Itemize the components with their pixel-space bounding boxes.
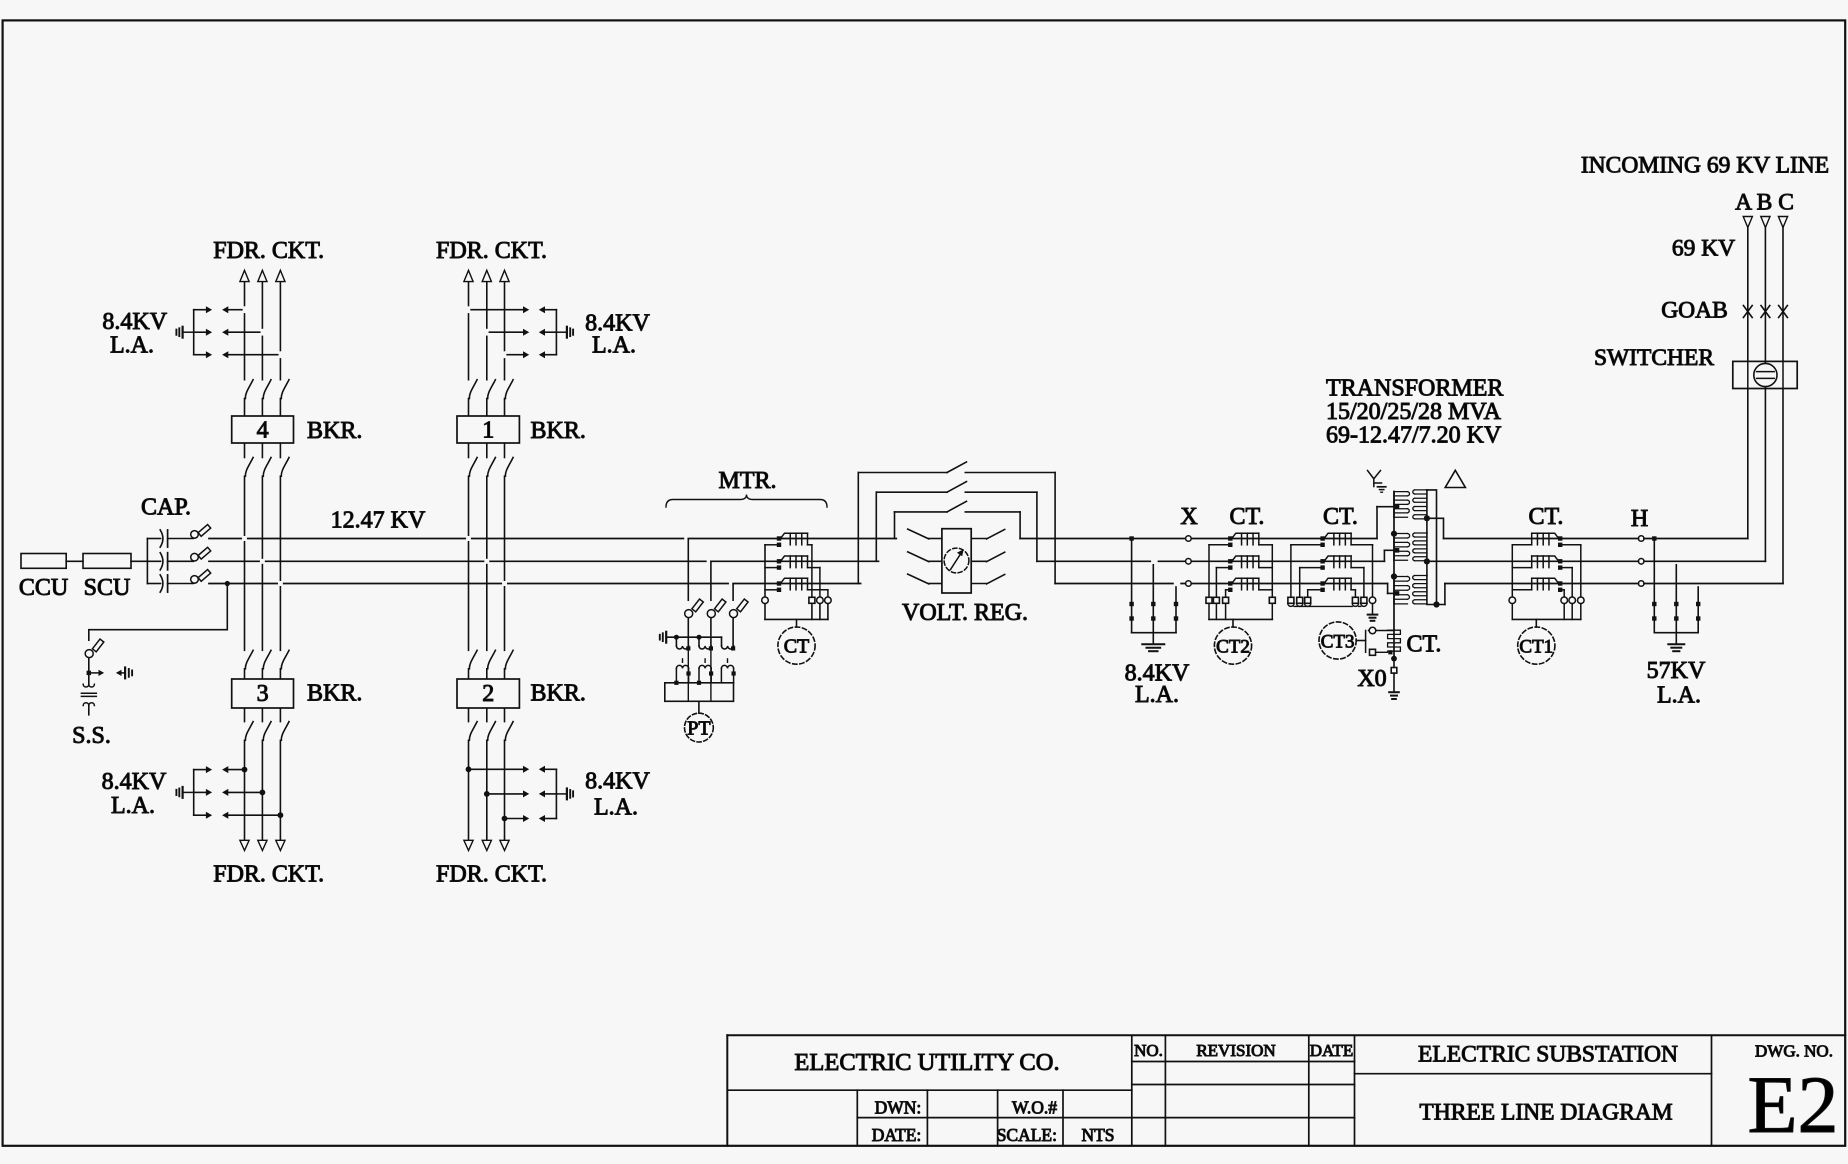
junction dot at bus (1129, 536, 1133, 540)
CT3 lead to neutral CT (1356, 640, 1365, 642)
CT3 right exit phase 1 (1351, 544, 1372, 546)
feeder phase line 2 at x=262.4 (261, 282, 263, 380)
PT secondary winding 3 (721, 665, 733, 668)
regulator series contact right (969, 560, 986, 562)
PT primary winding 2 (698, 637, 700, 646)
svg-text:ELECTRIC SUBSTATION: ELECTRIC SUBSTATION (1418, 1042, 1678, 1068)
svg-text:FDR. CKT.: FDR. CKT. (213, 238, 324, 264)
regulator bypass loop 1 top wire (895, 511, 948, 513)
CT1 winding phase 2 (1558, 559, 1562, 563)
disconnect blade lower top phase 1 (469, 458, 477, 477)
svg-text:3: 3 (257, 681, 269, 707)
disconnect blade upper top phase 3 (281, 380, 289, 399)
H bushing (1638, 559, 1644, 565)
CT winding phase 1 (777, 536, 781, 540)
CT3 right exit phase 3 (1351, 589, 1355, 591)
svg-text:CCU: CCU (19, 575, 68, 601)
CT3 left stub phase 1 (1291, 544, 1323, 546)
notch gap at feeder line 2 (261, 329, 264, 336)
L.A. branch row 3 (194, 354, 207, 356)
57/8.4KV L.A. drop line 2 (1674, 559, 1681, 563)
CT winding phase 2 (777, 559, 781, 563)
arrester ground lead (1675, 633, 1677, 644)
PT tap line phase 3 (732, 585, 734, 601)
X bushing (1186, 536, 1192, 542)
svg-text:S.S.: S.S. (72, 723, 111, 749)
arrester dot lower (1696, 616, 1700, 620)
disconnect blade upper bottom phase 2 (263, 650, 271, 669)
capacitor plate bar phase 3 (167, 575, 169, 592)
capacitor plate curved phase 1 (160, 530, 163, 547)
feeder phase line 3 at x=504.5 (504, 282, 506, 380)
arrester dot upper (1696, 602, 1700, 606)
arrester bracket (1132, 632, 1176, 634)
svg-text:12.47 KV: 12.47 KV (331, 508, 426, 534)
delta lead phase A (1424, 515, 1430, 521)
disconnect blade upper top phase 1 (469, 380, 477, 399)
CT3 left rail phase 1 (1290, 545, 1292, 598)
fuse cutout phase 2 (191, 553, 199, 561)
lightning arrester bracket at x=193.7 (193, 310, 195, 355)
L.A. branch row 2 (194, 331, 207, 333)
junction dot PT w2 (697, 635, 702, 640)
PT secondary winding 2 (699, 665, 711, 668)
incoming line arrowhead C (1778, 217, 1787, 228)
delta closure outer wire (1427, 490, 1437, 605)
svg-text:BKR.: BKR. (531, 681, 586, 707)
CT2 right exit phase 2 (1259, 567, 1273, 569)
H bushing (1638, 536, 1644, 542)
notch gap at feeder line 3 (279, 351, 282, 358)
arrester dot upper (1174, 602, 1178, 606)
disconnect blade upper top phase 1 (245, 380, 253, 399)
title block small cell dividers (856, 1090, 858, 1146)
L.A. branch row 2 (194, 791, 207, 793)
incoming line A (1747, 228, 1749, 362)
PT inner leads (687, 651, 689, 702)
L.A. ground electrode (558, 793, 566, 795)
CT1 left stub phase 2 (1512, 567, 1531, 569)
wire SCU to cap bank (131, 560, 161, 562)
svg-text:15/20/25/28 MVA: 15/20/25/28 MVA (1326, 399, 1502, 425)
svg-text:TRANSFORMER: TRANSFORMER (1326, 376, 1503, 402)
CT circle lead (796, 619, 798, 627)
disconnect blade upper bottom phase 3 (505, 650, 513, 669)
CT2 right exit phase 1 (1259, 544, 1273, 546)
svg-text:L.A.: L.A. (110, 333, 154, 359)
regulator bypass loop 2 left riser (875, 492, 877, 561)
L.A. ground electrode (558, 331, 566, 333)
L.A. branch row 1 (471, 309, 523, 311)
feeder arrow top phase 3 (500, 270, 509, 281)
svg-text:CT.: CT. (1323, 504, 1358, 530)
regulator bypass loop 1 left riser (894, 512, 896, 539)
svg-text:DATE: DATE (1310, 1041, 1353, 1060)
feeder arrow top phase 1 (464, 270, 473, 281)
lightning arrester bracket at x=556.4 (555, 769, 557, 818)
disconnect blade lower bottom phase 3 (505, 722, 513, 741)
arrester dot lower (1174, 616, 1178, 620)
cap bank bracket (146, 539, 148, 584)
S.S. transformer secondary coil (83, 703, 94, 706)
CT1 terminals (1509, 597, 1516, 604)
CT phase exits (808, 544, 812, 546)
svg-text:X: X (1180, 504, 1197, 530)
svg-text:ELECTRIC UTILITY CO.: ELECTRIC UTILITY CO. (794, 1049, 1059, 1076)
notch gap at feeder line 3 (503, 351, 506, 358)
69KV line phase A (1444, 538, 1639, 540)
CT1 winding phase 3 (1558, 581, 1562, 585)
X bushing (1186, 581, 1192, 587)
CT1 left rail (1511, 545, 1513, 598)
arrester ground lead (1152, 633, 1154, 644)
CT1 bottom box (1511, 604, 1513, 620)
svg-text:FDR. CKT.: FDR. CKT. (436, 861, 547, 887)
disconnect blade lower bottom phase 3 (281, 722, 289, 741)
neutral CT terminal bracket (1365, 631, 1367, 653)
CT2 terminals (1206, 597, 1212, 603)
transformer wye winding 3 (1393, 577, 1395, 604)
svg-text:W.O.#: W.O.# (1012, 1098, 1057, 1118)
junction dot S.S. tap on bus C (225, 581, 230, 586)
arrester dot lower (1151, 616, 1155, 620)
CT3 winding phase 2 (1320, 559, 1324, 563)
S.S. fuse cutout (85, 650, 93, 658)
feeder arrow bottom phase 2 (482, 840, 491, 850)
title block company row line (727, 1089, 1132, 1091)
disconnect blade lower top phase 1 (245, 458, 253, 477)
disconnect blade upper top phase 2 (488, 380, 496, 399)
regulator bypass loop 3 left riser (857, 473, 859, 584)
CT3 left rail phase 3 (1307, 590, 1309, 598)
CT2 left stub phase 1 (1209, 544, 1230, 546)
S.S. transformer core (81, 692, 96, 694)
capacitor plate bar phase 2 (167, 553, 169, 570)
wire CCU-SCU (66, 560, 83, 562)
svg-text:SCALE:: SCALE: (997, 1125, 1057, 1145)
disconnect blade lower top phase 3 (505, 458, 513, 477)
disconnect blade lower bottom phase 1 (469, 722, 477, 741)
L.A. branch row 1 (194, 309, 207, 311)
CT1 winding phase 1 (1558, 536, 1562, 540)
CT3 left stub phase 3 (1308, 589, 1323, 591)
junction dot at feeder line 1 (242, 767, 248, 773)
svg-text:CT.: CT. (1407, 632, 1442, 658)
disconnect blade lower top phase 2 (263, 458, 271, 477)
junction dot S.S. arrester tap (87, 671, 91, 675)
lightning arrester bracket at x=193.7 (193, 770, 195, 816)
PT ground symbol (659, 635, 661, 640)
CT3 ground (1368, 614, 1378, 616)
regulator dial (944, 548, 969, 573)
svg-text:DATE:: DATE: (872, 1125, 922, 1145)
fuse cutout phase 1 (191, 531, 199, 539)
regulator bypass switch blade 2 (947, 482, 967, 493)
transformer delta winding 1 (1426, 490, 1428, 519)
svg-text:SWITCHER: SWITCHER (1594, 345, 1714, 371)
junction dot neutral CT (1388, 650, 1392, 654)
feeder phase line 2 at x=486.8 (486, 282, 488, 380)
station ground (1389, 691, 1399, 693)
CT2 right rail (1271, 545, 1273, 598)
breaker 3 box (232, 679, 294, 708)
arrester dot upper (1151, 602, 1155, 606)
arrester dot upper (1129, 602, 1133, 606)
incoming line B (1764, 228, 1766, 362)
svg-text:VOLT. REG.: VOLT. REG. (902, 600, 1028, 626)
junction dot at feeder line 1 (466, 766, 472, 772)
notch gap at feeder line 1 (467, 306, 470, 313)
junction dot neutral (1391, 656, 1397, 662)
disconnect blade lower bottom phase 2 (263, 722, 271, 741)
arrester dot lower (1129, 616, 1133, 620)
svg-text:8.4KV: 8.4KV (585, 768, 650, 794)
wye symbol (1368, 471, 1382, 487)
disconnect blade upper bottom phase 1 (245, 650, 253, 669)
wire bus C to S.S. (89, 584, 228, 641)
disconnect blade lower top phase 3 (281, 458, 289, 477)
12.47 KV bus phase A (top) (209, 538, 241, 540)
metering brace (666, 495, 827, 508)
wire capacitor to fuse phase 1 (168, 538, 194, 540)
cap bank branch bottom wire (147, 583, 160, 585)
disconnect blade lower bottom phase 2 (488, 722, 496, 741)
CT bottom leads (764, 604, 766, 620)
junction dot at feeder line 2 (484, 791, 490, 797)
breaker 4 box (232, 416, 294, 443)
junction dot delta bottom (1433, 601, 1439, 607)
CT2 left rail phase 3 (1225, 590, 1227, 598)
L.A. branch row 2 (489, 331, 523, 333)
GOAB switch A (1743, 306, 1752, 318)
CT1 right exit phase 2 (1560, 567, 1572, 569)
svg-text:DWN:: DWN: (875, 1098, 922, 1118)
svg-text:BKR.: BKR. (531, 418, 586, 444)
L.A. ground electrode (183, 331, 192, 333)
57/8.4KV L.A. drop line 3 (1696, 581, 1703, 585)
svg-text:CAP.: CAP. (141, 495, 191, 521)
delta spine joins (1426, 519, 1428, 533)
svg-text:BKR.: BKR. (307, 418, 362, 444)
CT1 circle lead (1535, 619, 1537, 627)
svg-text:MTR.: MTR. (718, 468, 776, 494)
S.S. secondary lead (88, 706, 90, 715)
switcher circle (1754, 363, 1777, 386)
CT3 terminal cups and rail (1288, 603, 1294, 606)
disconnect blade upper top phase 3 (505, 380, 513, 399)
svg-text:CT: CT (784, 636, 810, 658)
svg-text:THREE LINE DIAGRAM: THREE LINE DIAGRAM (1419, 1100, 1672, 1126)
CT3 right exit phase 2 (1351, 567, 1364, 569)
feeder arrow bottom phase 1 (464, 840, 473, 850)
svg-text:A B C: A B C (1735, 190, 1794, 216)
arrester ground (1668, 643, 1684, 645)
disconnect blade lower bottom phase 1 (245, 722, 253, 741)
svg-text:4: 4 (257, 418, 269, 444)
regulator bypass loop 2 right riser (1036, 492, 1038, 561)
12.47 KV bus phase B (middle) (209, 560, 259, 562)
X bushing (1186, 559, 1192, 565)
feeder phase line 3 at x=280.4 (279, 282, 281, 380)
S.S. surge gap arrester (89, 672, 99, 674)
regulator series contact left (908, 574, 929, 584)
svg-text:REVISION: REVISION (1196, 1041, 1275, 1060)
delta lead phase C riser (1444, 584, 1446, 605)
CT3 circle (1319, 622, 1356, 659)
S.S. transformer primary coil (83, 684, 94, 687)
breaker 1 box (457, 416, 519, 443)
PT secondary box (665, 683, 734, 702)
L.A. branch row 1 (469, 768, 524, 770)
svg-text:CT1: CT1 (1519, 637, 1553, 658)
junction dot spine 2 (1391, 573, 1397, 579)
CT winding phase 3 (777, 581, 781, 585)
junction dot at feeder line 2 (260, 790, 266, 796)
breaker 2 box (457, 679, 519, 708)
arrester dot lower (1652, 616, 1656, 620)
svg-text:69-12.47/7.20 KV: 69-12.47/7.20 KV (1326, 422, 1502, 448)
PT tap line lower phase 3 (732, 619, 734, 648)
regulator bypass loop 3 right riser (1054, 473, 1056, 584)
delta bottom wire (1427, 604, 1445, 606)
feeder arrow bottom phase 1 (240, 840, 249, 850)
PT tap line phase 1 (687, 540, 689, 601)
regulator bypass loop 3 top wire (858, 472, 947, 474)
CT3 terminals (1288, 597, 1294, 603)
CT1 left stub phase 1 (1512, 544, 1531, 546)
CT1 left stub phase 3 (1512, 589, 1531, 591)
wire capacitor to fuse phase 3 (168, 583, 194, 585)
disconnect blade lower top phase 2 (488, 458, 496, 477)
wire to S.S. transformer (88, 673, 90, 684)
feeder arrow top phase 2 (482, 270, 491, 281)
L.A. branch row 1 (194, 769, 207, 771)
L.A. branch row 3 (505, 818, 524, 820)
feeder phase line 1 at x=244.5 (244, 282, 246, 380)
transformer delta winding 2 (1426, 533, 1428, 561)
CT3 winding phase 3 (1320, 581, 1324, 585)
69KV line phase B (1427, 560, 1639, 562)
CT common rail (764, 545, 766, 597)
junction dot at bus (1652, 536, 1656, 540)
SCU box (83, 554, 131, 569)
PT lead (698, 701, 700, 713)
regulator bypass loop 1 right riser (1019, 512, 1021, 539)
CT2 winding phase 2 (1228, 559, 1232, 563)
CT3 ground lead (1372, 604, 1374, 614)
notch gap at feeder line 1 (243, 306, 246, 313)
svg-text:CT.: CT. (1230, 504, 1265, 530)
PT primary winding 1 (675, 637, 677, 646)
X0 bushing square (1391, 668, 1397, 674)
junction dot PT w1 (674, 635, 679, 640)
disconnect blade upper bottom phase 3 (281, 650, 289, 669)
incoming line arrowhead A (1743, 217, 1752, 228)
feeder arrow bottom phase 3 (276, 840, 285, 850)
57/8.4KV L.A. drop line 2 (1151, 559, 1158, 563)
regulator series contact right (969, 583, 986, 585)
feeder arrow top phase 2 (258, 270, 267, 281)
CT2 winding phase 3 (1228, 581, 1232, 585)
svg-text:CT3: CT3 (1321, 631, 1355, 652)
CT2 bottom box (1208, 603, 1210, 619)
incoming line arrowhead B (1761, 217, 1770, 228)
circuit switcher lines through box (1747, 361, 1749, 388)
disconnect blade upper top phase 2 (263, 380, 271, 399)
feeder arrow bottom phase 2 (258, 840, 267, 850)
voltage regulator box (942, 529, 971, 593)
57/8.4KV L.A. drop line 1 (1653, 539, 1655, 633)
CT2 left rail phase 2 (1215, 568, 1217, 598)
svg-text:8.4KV: 8.4KV (102, 769, 167, 795)
substation cell divider (1355, 1073, 1712, 1075)
PT primary winding 3 (721, 637, 723, 646)
arrester dot lower (1674, 616, 1678, 620)
regulator series contact left (908, 529, 929, 539)
57/8.4KV L.A. drop line 1 (1131, 539, 1133, 633)
feeder arrow top phase 3 (276, 270, 285, 281)
svg-text:57KV: 57KV (1647, 658, 1706, 684)
fuse cutout phase 3 (191, 576, 199, 584)
feeder arrow top phase 1 (240, 270, 249, 281)
CT2 winding phase 1 (1228, 536, 1232, 540)
L.A. ground electrode (183, 791, 192, 793)
PT tap line lower phase 1 (687, 619, 689, 648)
GOAB switch B (1761, 306, 1770, 318)
transformer neutral spine (1393, 492, 1395, 631)
svg-text:8.4KV: 8.4KV (102, 309, 167, 335)
svg-text:CT2: CT2 (1216, 637, 1250, 658)
PT fuse cutout phase 2 (707, 610, 715, 618)
L.A. branch row 3 (194, 814, 207, 816)
arrester dot upper (1674, 602, 1678, 606)
CT3 winding phase 1 (1320, 536, 1324, 540)
PT circle (685, 713, 714, 742)
svg-text:BKR.: BKR. (307, 681, 362, 707)
svg-text:DWG. NO.: DWG. NO. (1755, 1042, 1833, 1061)
cap bank branch top wire (147, 538, 160, 540)
disconnect blade upper bottom phase 1 (469, 650, 477, 669)
L.A. branch row 2 (487, 793, 523, 795)
PT fuse cutout phase 3 (730, 610, 738, 618)
svg-text:1: 1 (482, 418, 494, 444)
PT tap line phase 2 (710, 563, 712, 601)
regulator bypass switch blade 1 (947, 501, 967, 512)
svg-text:L.A.: L.A. (1657, 683, 1701, 709)
arrester bracket (1654, 632, 1698, 634)
regulator bypass switch blade 3 (947, 462, 967, 473)
transformer wye winding 1 (1393, 492, 1395, 518)
svg-text:CT.: CT. (1529, 504, 1564, 530)
CT circle (778, 627, 815, 664)
junction dot spine 1 (1391, 531, 1397, 537)
svg-text:INCOMING 69 KV LINE: INCOMING 69 KV LINE (1581, 153, 1829, 179)
svg-text:FDR. CKT.: FDR. CKT. (213, 861, 324, 887)
regulator bypass loop 2 top wire (876, 491, 947, 493)
CT terminal left (762, 597, 769, 604)
svg-text:FDR. CKT.: FDR. CKT. (436, 238, 547, 264)
capacitor plate curved phase 2 (160, 553, 163, 570)
CT3 left stub phase 2 (1300, 567, 1323, 569)
title block vertical dividers (1131, 1035, 1133, 1146)
incoming line C (1782, 228, 1784, 362)
svg-text:GOAB: GOAB (1661, 297, 1728, 323)
57/8.4KV L.A. drop line 3 (1174, 581, 1181, 585)
CCU box (21, 554, 66, 569)
neutral bushing CT winding (1388, 630, 1401, 651)
PT primary ground rail (666, 636, 721, 638)
capacitor plate curved phase 3 (160, 575, 163, 592)
